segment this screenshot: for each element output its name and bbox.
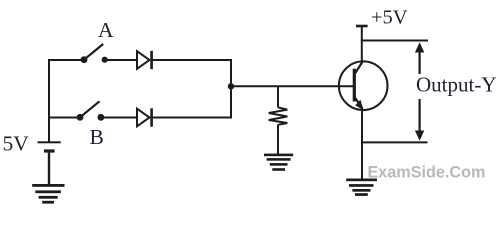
wire: bottom branch from bus to switch B (48, 117, 80, 119)
svg-text:A: A (98, 18, 114, 42)
wire: emitter vertical down to ground (361, 107, 363, 179)
wire: left vertical bus from top branch down to battery (48, 59, 50, 142)
wire: resistor bottom lead to ground (277, 125, 279, 154)
svg-text:Output-Y: Output-Y (416, 73, 497, 97)
wire: switch A right dot to diode D1 anode (105, 59, 138, 61)
battery V1 5V (38, 141, 61, 152)
svg-text:+5V: +5V (371, 7, 408, 29)
wire: resistor top lead (277, 86, 279, 107)
output measurement arrow (down) (415, 99, 424, 141)
svg-text:B: B (90, 125, 104, 149)
ground: below emitter (346, 179, 377, 196)
wire: emitter rail to output arrow (361, 141, 428, 143)
ground: below resistor (264, 154, 293, 171)
svg-text:5V: 5V (3, 132, 30, 156)
switch B (77, 101, 105, 120)
transistor Q1 (NPN) (339, 61, 388, 110)
svg-text:ExamSide.Com: ExamSide.Com (368, 164, 486, 182)
ground: below battery (32, 184, 64, 204)
wire: +5V terminal down to collector (361, 26, 363, 63)
emitter arrowhead of Q1 (355, 100, 363, 110)
wire: switch B right dot to diode D2 anode (101, 117, 137, 119)
diode D1 (137, 51, 152, 69)
resistor R1 (base pulldown) (269, 107, 288, 124)
wire: top branch from bus to switch A (48, 59, 84, 61)
wire: diode D1 cathode to junction bus (152, 59, 233, 61)
switch A (81, 44, 108, 63)
wire: +5V collector rail to output arrow (361, 40, 428, 42)
node: junction dot where diode outputs meet (228, 83, 234, 89)
wire: battery negative to ground (48, 153, 50, 185)
wire: middle horizontal from node to transistor base (231, 85, 354, 87)
diode D2 (137, 108, 152, 126)
wire: diode D2 cathode to junction bus (152, 117, 233, 119)
power +5V terminal tick (356, 25, 368, 28)
output measurement arrow (up) (415, 42, 424, 74)
wire: right junction vertical bus joining both diode outputs (230, 59, 232, 119)
